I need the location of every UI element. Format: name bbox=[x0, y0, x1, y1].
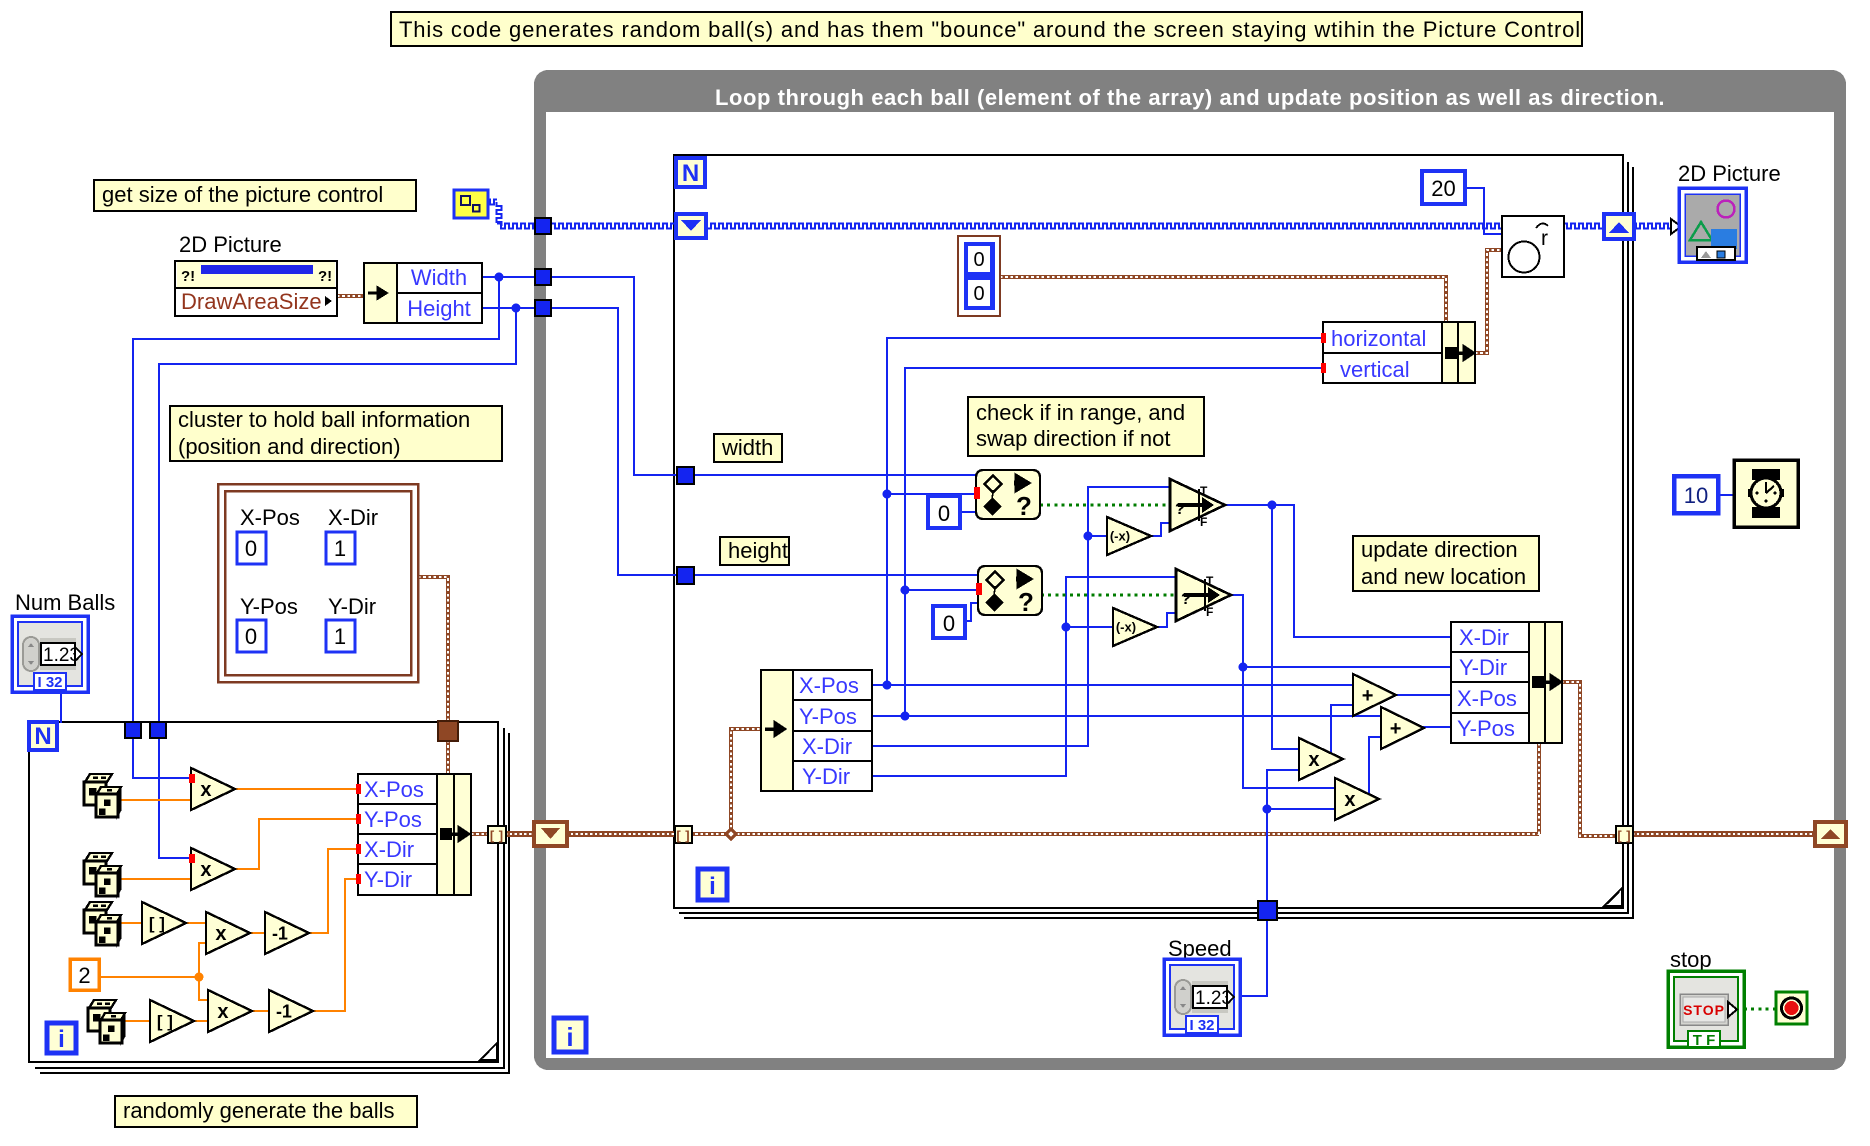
wire: horizontal/vertical bundle to Draw Circle (brown dotted) bbox=[1475, 250, 1502, 353]
tunnel: cluster constant into generator loop bbox=[438, 721, 458, 741]
shift register: picture (right, up arrow) bbox=[1604, 214, 1634, 239]
svg-text:get size of the picture contro: get size of the picture control bbox=[102, 182, 383, 207]
tunnel: height into generator loop bbox=[150, 722, 166, 738]
wire: picture shift register to Draw Circle (zigzag) bbox=[703, 224, 1503, 229]
wire: dice 4 to round 2 (orange) bbox=[122, 1020, 150, 1022]
cluster constant: 0 0 circle position bbox=[958, 236, 1000, 316]
wire: stop button to loop condition (green dotted) bbox=[1744, 1008, 1776, 1011]
wire: select 2 out to bundle Y-Dir and multiply Y bbox=[1230, 595, 1451, 788]
free label: cluster to hold ball information bbox=[170, 406, 502, 461]
svg-text:2D Picture: 2D Picture bbox=[1678, 161, 1781, 186]
shift register: ball array (right, up arrow) bbox=[1815, 822, 1846, 846]
svg-text:?!: ?! bbox=[181, 268, 195, 285]
svg-text:+: + bbox=[1362, 685, 1374, 707]
wire: while shift register to for loop tunnel (crosshatch) bbox=[566, 831, 676, 837]
svg-text:X-Pos: X-Pos bbox=[1457, 686, 1517, 711]
wire: height inside while loop to for-loop tunnel bbox=[551, 308, 678, 575]
function: add Y bbox=[1381, 707, 1424, 749]
svg-text:(-x): (-x) bbox=[1110, 529, 1130, 544]
wire: Speed control into for loop and multiplies bbox=[1240, 770, 1335, 996]
wire: multiply 4 to negate 2 (orange) bbox=[252, 1010, 269, 1012]
wire: add Y to bundle Y-Pos bbox=[1422, 726, 1451, 728]
free label: top comment bbox=[391, 12, 1582, 46]
svg-text:STOP: STOP bbox=[1683, 1002, 1725, 1018]
wire: picture constant to while loop tunnel (zigzag) bbox=[486, 200, 537, 229]
tunnel: ball array out of generator loop bbox=[488, 826, 506, 843]
svg-text:This code generates random bal: This code generates random ball(s) and h… bbox=[399, 17, 1581, 42]
svg-text:2: 2 bbox=[78, 963, 90, 988]
svg-text:-1: -1 bbox=[276, 1001, 292, 1021]
wire: multiply Y to add Y lower input bbox=[1369, 737, 1381, 794]
wire: generator bundle to loop edge (brown dotted) bbox=[471, 832, 488, 836]
wire: negate 3 to select 1 F input bbox=[1151, 523, 1170, 536]
svg-text:Y-Dir: Y-Dir bbox=[802, 764, 850, 789]
svg-text:X-Dir: X-Dir bbox=[364, 837, 414, 862]
function: random number dice 4 bbox=[88, 1000, 125, 1043]
tunnel: height into for loop bbox=[677, 567, 694, 584]
shift register: ball array (left, down arrow) bbox=[534, 822, 567, 846]
svg-text:Loop through each ball (elemen: Loop through each ball (element of the a… bbox=[715, 85, 1665, 110]
cluster constant: ball information (X-Pos X-Dir Y-Pos Y-Dir) bbox=[218, 484, 418, 682]
wire: Height to while tunnel, branch down-left to generator loop bbox=[159, 304, 537, 725]
svg-text:Width: Width bbox=[411, 265, 467, 290]
wire: dice 3 to round 1 (orange) bbox=[118, 922, 142, 924]
svg-text:N: N bbox=[682, 160, 699, 187]
wire: junction up to unbundle (brown dotted) bbox=[731, 729, 761, 833]
svg-text:1: 1 bbox=[334, 624, 346, 649]
svg-text:20: 20 bbox=[1431, 176, 1455, 201]
wire: multiply 1 to bundle X-Pos (orange) bbox=[235, 788, 358, 790]
svg-text:0: 0 bbox=[938, 501, 950, 526]
wire: multiply 2 to bundle Y-Pos (orange) bbox=[235, 819, 358, 869]
svg-text:X-Dir: X-Dir bbox=[802, 734, 852, 759]
unbundle node: Width / Height bbox=[364, 263, 482, 323]
wire: round 2 to multiply 4 (orange) bbox=[194, 1020, 208, 1022]
wire: 0 constant to In Range 2 bbox=[965, 603, 978, 621]
wire: X-Pos to add X, branches to In Range 1 and horizontal bundle bbox=[872, 338, 1353, 690]
svg-text:T F: T F bbox=[1693, 1032, 1716, 1049]
svg-text:r: r bbox=[1541, 227, 1548, 250]
free label: randomly generate the balls bbox=[115, 1096, 417, 1127]
svg-text:x: x bbox=[200, 859, 211, 881]
svg-text:0: 0 bbox=[245, 536, 257, 561]
wire: round 1 to multiply 3 (orange) bbox=[186, 922, 206, 924]
constant: 10 (ms) bbox=[1674, 476, 1718, 513]
svg-text:N: N bbox=[34, 723, 51, 750]
free label: update direction bbox=[1353, 536, 1539, 591]
wire: multiply X to add X lower input bbox=[1331, 705, 1353, 753]
constant: 20 (radius) bbox=[1422, 171, 1465, 204]
terminal: generator loop iteration i bbox=[47, 1023, 76, 1053]
svg-text:x: x bbox=[200, 779, 211, 801]
wire: 10 constant to Wait bbox=[1718, 494, 1734, 496]
free label: width bbox=[714, 434, 782, 462]
tunnel: ball cluster in (auto-index) bbox=[675, 826, 692, 843]
svg-text:horizontal: horizontal bbox=[1331, 326, 1426, 351]
free label: get size of the picture control bbox=[94, 180, 416, 211]
function: select 2 (y direction) bbox=[1176, 569, 1231, 621]
svg-text:Num Balls: Num Balls bbox=[15, 590, 115, 615]
terminal: while loop iteration i bbox=[554, 1018, 586, 1052]
svg-text:T: T bbox=[1206, 574, 1214, 588]
svg-text:?!: ?! bbox=[318, 268, 332, 285]
constant: 0 (x lower) bbox=[928, 496, 960, 528]
constant: 0 (y lower) bbox=[933, 606, 965, 638]
terminal: for loop iteration i bbox=[698, 869, 727, 900]
indicator: 2D Picture bbox=[1671, 161, 1781, 262]
svg-text:x: x bbox=[215, 923, 226, 945]
tunnel: width into generator loop bbox=[125, 722, 141, 738]
wire: select 1 out to bundle X-Dir and multiply X bbox=[1225, 501, 1451, 750]
svg-text:x: x bbox=[1308, 749, 1319, 771]
function: multiply 4 (y-dir) bbox=[208, 990, 252, 1032]
svg-text:I 32: I 32 bbox=[1189, 1017, 1214, 1034]
function: In Range and Coerce 2 (y) bbox=[976, 566, 1042, 617]
svg-text:x: x bbox=[217, 1001, 228, 1023]
wire: dice 1 to multiply 1 (orange) bbox=[118, 799, 191, 801]
svg-text:x: x bbox=[1344, 789, 1355, 811]
svg-text:i: i bbox=[709, 873, 716, 900]
tunnel: ball cluster out (auto-index) bbox=[1616, 826, 1633, 843]
wire: 20 constant to Draw Circle radius bbox=[1465, 188, 1502, 234]
wire: constant 2 to multiplies (orange) bbox=[99, 943, 208, 1000]
svg-text:Y-Dir: Y-Dir bbox=[364, 867, 412, 892]
wire: add X to bundle X-Pos bbox=[1394, 694, 1451, 696]
svg-text:2D Picture: 2D Picture bbox=[179, 232, 282, 257]
wire: height tunnel to In Range 2 upper input bbox=[693, 574, 978, 576]
svg-text:0: 0 bbox=[973, 249, 984, 271]
unbundle node: X-Pos Y-Pos X-Dir Y-Dir bbox=[761, 670, 872, 791]
wire: Y-Pos to add Y, branches to In Range 2 and vertical bundle bbox=[872, 368, 1381, 721]
wire: negate 2 to bundle Y-Dir (orange) bbox=[313, 879, 358, 1011]
terminal: for loop count N bbox=[676, 158, 705, 187]
svg-text:width: width bbox=[721, 435, 773, 460]
function: random number dice 3 bbox=[84, 902, 121, 945]
svg-text:1: 1 bbox=[334, 536, 346, 561]
tunnel: picture into while loop bbox=[535, 218, 551, 234]
function: In Range and Coerce 1 (x) bbox=[974, 470, 1040, 521]
svg-text:X-Pos: X-Pos bbox=[240, 505, 300, 530]
svg-text:check if in range, and: check if in range, and bbox=[976, 400, 1185, 425]
for loop (bottom-left, random ball generation) frame with stacked shadow bbox=[29, 722, 509, 1073]
while loop title bbox=[715, 85, 1665, 110]
wire: Y-Dir to select 2 / negate 4 bbox=[872, 577, 1176, 776]
svg-text:(position and direction): (position and direction) bbox=[178, 434, 401, 459]
function: round to -inf 1 bbox=[142, 902, 186, 944]
svg-text:F: F bbox=[1200, 515, 1207, 529]
svg-text:[ ]: [ ] bbox=[490, 828, 504, 843]
svg-text:?: ? bbox=[1016, 491, 1032, 521]
control: Speed (I32) bbox=[1164, 936, 1240, 1035]
svg-text:and new location: and new location bbox=[1361, 564, 1526, 589]
svg-text:Y-Pos: Y-Pos bbox=[240, 594, 298, 619]
junction: cluster wire diamond bbox=[724, 827, 738, 841]
svg-text:X-Dir: X-Dir bbox=[328, 505, 378, 530]
free label: check if in range bbox=[968, 397, 1204, 456]
svg-text:(-x): (-x) bbox=[1116, 620, 1136, 635]
svg-text:?: ? bbox=[1018, 587, 1034, 617]
function: Draw Circle by Radius bbox=[1502, 216, 1564, 277]
svg-text:update direction: update direction bbox=[1361, 537, 1518, 562]
svg-text:Y-Pos: Y-Pos bbox=[1457, 716, 1515, 741]
wire: Num Balls to generator loop count bbox=[60, 692, 62, 723]
svg-text:stop: stop bbox=[1670, 947, 1712, 972]
svg-text:10: 10 bbox=[1684, 483, 1708, 508]
control: Num Balls (I32) bbox=[12, 590, 115, 692]
function: select 1 (x direction) bbox=[1170, 479, 1225, 531]
function: negate 4 (y-dir) bbox=[1113, 608, 1157, 646]
function: random number dice 2 bbox=[84, 853, 121, 896]
tunnel: height into while loop bbox=[535, 300, 551, 316]
function: Wait Until Next ms Multiple (metronome) bbox=[1734, 460, 1798, 527]
constant: 2 bbox=[70, 959, 99, 990]
wire: DrawAreaSize to unbundle (brown dotted) bbox=[337, 294, 364, 298]
svg-text:0: 0 bbox=[943, 611, 955, 636]
wire: picture tunnel to for-loop shift register (zigzag) bbox=[551, 224, 678, 229]
function: multiply Y (dir * speed) bbox=[1335, 778, 1379, 820]
while loop (outer) gray structure bbox=[534, 70, 1846, 1070]
svg-text:0: 0 bbox=[245, 624, 257, 649]
property node U1: 2D Picture DrawAreaSize bbox=[175, 232, 337, 316]
svg-text:?: ? bbox=[1181, 591, 1191, 608]
wire: ball element cluster across for loop (brown dotted) bbox=[690, 744, 1539, 834]
wire: Draw Circle to right shift register (zigzag) bbox=[1563, 224, 1606, 229]
svg-text:T: T bbox=[1200, 484, 1208, 498]
wire: 0 constant to In Range 1 bbox=[960, 511, 976, 513]
wire: multiply 3 to negate 1 (orange) bbox=[250, 932, 265, 934]
terminal: while loop condition (stop sign) bbox=[1776, 992, 1807, 1024]
svg-text:vertical: vertical bbox=[1340, 357, 1410, 382]
control: stop (boolean) bbox=[1668, 947, 1744, 1049]
svg-text:cluster to hold ball informati: cluster to hold ball information bbox=[178, 407, 470, 432]
function: add X bbox=[1353, 674, 1396, 716]
wire: width vertical to multiply 1 bbox=[133, 738, 191, 778]
wire: Width to while tunnel, branch down-left to generator loop bbox=[133, 273, 537, 725]
wire: width tunnel to In Range upper input bbox=[693, 474, 976, 476]
wire: width inside while loop to for-loop tunnel bbox=[551, 277, 678, 475]
wire: ball array out of generator loop to while shift register (crosshatch) bbox=[505, 831, 535, 837]
terminal: generator loop count N bbox=[29, 722, 57, 750]
function: multiply X (dir * speed) bbox=[1299, 738, 1343, 780]
svg-text:X-Pos: X-Pos bbox=[799, 673, 859, 698]
function: negate 1 (-1) bbox=[265, 912, 309, 954]
wire: for loop tunnel to right while shift register (crosshatch) bbox=[1632, 831, 1816, 837]
tunnel: width into for loop bbox=[677, 467, 694, 484]
svg-text:I 32: I 32 bbox=[37, 674, 62, 691]
svg-text:i: i bbox=[58, 1026, 65, 1053]
svg-text:swap direction if not: swap direction if not bbox=[976, 426, 1170, 451]
constant: empty picture bbox=[454, 190, 488, 218]
svg-text:Y-Dir: Y-Dir bbox=[328, 594, 376, 619]
wire: X-Dir to select 1 / negate 3 bbox=[872, 487, 1170, 746]
function: negate 3 (x-dir) bbox=[1107, 517, 1151, 555]
wire: dice 2 to multiply 2 (orange) bbox=[118, 878, 191, 880]
svg-text:Height: Height bbox=[407, 296, 471, 321]
svg-text:?: ? bbox=[1175, 501, 1185, 518]
wire: cluster tunnel down to bundle node (brown dotted) bbox=[446, 740, 450, 776]
wire: negate 1 to bundle X-Dir (orange) bbox=[309, 849, 358, 933]
svg-text:height: height bbox=[728, 538, 788, 563]
free label: height bbox=[720, 537, 789, 565]
bundle node: horizontal / vertical bbox=[1321, 322, 1475, 383]
tunnel: speed into for loop bbox=[1258, 901, 1277, 920]
svg-text:X-Pos: X-Pos bbox=[364, 777, 424, 802]
for loop (inner, per-ball) frame with stacked shadow bbox=[674, 155, 1633, 918]
svg-text:Y-Pos: Y-Pos bbox=[799, 704, 857, 729]
svg-text:+: + bbox=[1390, 718, 1402, 740]
wire: bundle output to for loop right tunnel (brown dotted) bbox=[1561, 682, 1617, 836]
svg-text:F: F bbox=[1206, 605, 1213, 619]
svg-text:randomly generate the balls: randomly generate the balls bbox=[123, 1098, 395, 1123]
svg-text:Y-Dir: Y-Dir bbox=[1459, 655, 1507, 680]
function: random number dice 1 bbox=[84, 774, 121, 817]
function: round to -inf 2 bbox=[150, 1000, 194, 1042]
svg-text:i: i bbox=[566, 1022, 573, 1052]
svg-text:[ ]: [ ] bbox=[157, 1012, 173, 1031]
shift register: picture (left, down arrow) bbox=[676, 214, 706, 238]
svg-text:0: 0 bbox=[973, 283, 984, 305]
wire: height vertical to multiply 2 bbox=[159, 738, 191, 858]
function: multiply 3 (x-dir) bbox=[206, 912, 250, 954]
svg-text:[ ]: [ ] bbox=[676, 828, 690, 843]
function: negate 2 (-1) bbox=[269, 990, 313, 1032]
svg-text:DrawAreaSize: DrawAreaSize bbox=[181, 289, 322, 314]
svg-text:[ ]: [ ] bbox=[149, 914, 165, 933]
tunnel: width into while loop bbox=[535, 269, 551, 285]
wire: In Range 1 boolean to select 1 (green dotted) bbox=[1040, 504, 1170, 507]
function: multiply 2 (y-pos) bbox=[189, 848, 235, 890]
bundle node: X-Dir Y-Dir X-Pos Y-Pos bbox=[1451, 622, 1562, 743]
wire: ball cluster constant to generator loop tunnel (brown dotted) bbox=[418, 577, 448, 722]
wire: negate 4 to select 2 F input bbox=[1157, 613, 1176, 627]
wire: 0 0 position constant to horizontal/vertical bundle (brown dotted) bbox=[1000, 277, 1446, 323]
svg-text:-1: -1 bbox=[272, 923, 288, 943]
svg-text:Y-Pos: Y-Pos bbox=[364, 807, 422, 832]
bundle node: X-Pos Y-Pos X-Dir Y-Dir bbox=[356, 774, 471, 895]
wire: picture out to 2D Picture indicator (zigzag) bbox=[1632, 224, 1676, 229]
svg-text:X-Dir: X-Dir bbox=[1459, 625, 1509, 650]
wire: In Range 2 boolean to select 2 (green dotted) bbox=[1041, 594, 1176, 597]
function: multiply 1 (x-pos) bbox=[189, 768, 235, 810]
svg-text:[ ]: [ ] bbox=[1617, 828, 1631, 843]
